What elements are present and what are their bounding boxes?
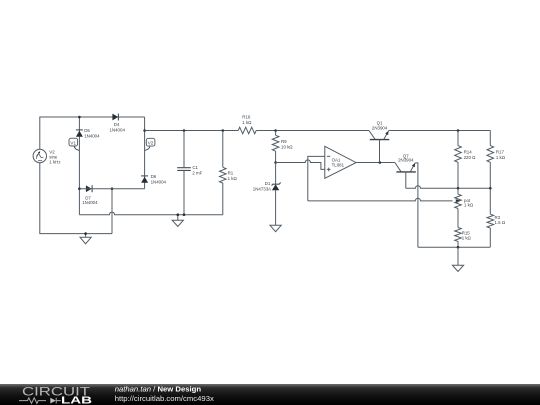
svg-text:1 kΩ: 1 kΩ: [242, 120, 252, 125]
svg-text:1N4004: 1N4004: [82, 200, 98, 205]
wire: op-amp output: [356, 162, 395, 164]
node: output / Q1 base: [379, 161, 382, 164]
node: left column / D7 anode: [78, 187, 81, 190]
svg-text:D5: D5: [84, 128, 90, 133]
node: top rail / left column: [78, 116, 81, 119]
resistor R17 1k: [487, 131, 494, 189]
svg-text:220 Ω: 220 Ω: [464, 155, 477, 160]
node: zener reference node: [274, 161, 277, 164]
diode D6 1N4004: [141, 176, 148, 183]
wire: bridge mid-bottom vertical: [111, 189, 113, 234]
svg-text:1N4004: 1N4004: [110, 127, 126, 132]
svg-text:1 kΩ: 1 kΩ: [464, 202, 474, 207]
svg-text:D6: D6: [151, 174, 157, 179]
wire: source top to bridge top rail: [40, 117, 145, 149]
ground (zener): [270, 225, 281, 231]
pot wiper arrow: [456, 199, 461, 203]
voltage source V2 (sine 1 kHz): [33, 149, 46, 162]
svg-text:R16: R16: [242, 115, 251, 120]
svg-text:1.5 Ω: 1.5 Ω: [495, 220, 506, 225]
svg-text:1N4733A: 1N4733A: [253, 186, 271, 191]
svg-text:10 kΩ: 10 kΩ: [281, 145, 293, 150]
voltmeter bubble V2: [145, 138, 155, 150]
svg-text:R14: R14: [464, 149, 473, 154]
svg-text:D1: D1: [265, 181, 271, 186]
svg-text:R17: R17: [496, 149, 505, 154]
ground (filter bottom): [172, 215, 183, 227]
transistor Q7 2N3904: [395, 163, 416, 189]
footer bar: [0, 384, 540, 405]
zener diode D1 1N4733A: [272, 163, 281, 226]
wire: bridge right column: [144, 117, 146, 189]
svg-text:1 kHz: 1 kHz: [49, 160, 60, 165]
logo doodle diode: [50, 398, 56, 404]
svg-text:R3: R3: [495, 215, 501, 220]
resistor R15 1k: [455, 228, 462, 248]
voltmeter bubble V1: [69, 138, 79, 150]
svg-text:V1: V1: [70, 141, 76, 146]
svg-text:1N4004: 1N4004: [151, 179, 167, 184]
svg-text:1 kΩ: 1 kΩ: [462, 236, 472, 241]
node: divider wire / R14 bottom / pot top: [457, 187, 460, 190]
svg-text:1 kΩ: 1 kΩ: [228, 176, 238, 181]
ground (output divider): [452, 247, 463, 271]
svg-text:1 kΩ: 1 kΩ: [496, 155, 506, 160]
node: rail / C1 top: [183, 129, 186, 132]
svg-text:TL081: TL081: [332, 163, 345, 168]
svg-text:LAB: LAB: [61, 395, 92, 405]
svg-text:V2: V2: [148, 141, 154, 146]
svg-text:R15: R15: [462, 230, 471, 235]
transistor Q1 2N3904: [369, 131, 389, 163]
node: rail / R1 top: [222, 129, 225, 132]
wire: op-amp - input from feedback column: [308, 156, 325, 201]
resistor R3 1.5: [487, 188, 494, 247]
svg-text:nathan.tan / New Design: nathan.tan / New Design: [115, 385, 202, 394]
wire: Q7 emitter to output column: [415, 163, 418, 247]
capacitor C1 2 mF: [177, 131, 191, 215]
diode D4 1N4004: [112, 114, 118, 121]
svg-text:http://circuitlab.com/cmc493x: http://circuitlab.com/cmc493x: [115, 394, 214, 403]
svg-text:2 mF: 2 mF: [192, 170, 202, 175]
node: rail / R9 top: [274, 129, 277, 132]
svg-text:2N3904: 2N3904: [398, 158, 414, 163]
node: bottom rail ground tap: [457, 246, 460, 249]
ground (source bottom): [80, 234, 91, 244]
wire: output bottom rail: [418, 246, 490, 248]
node: C1 bottom on rail: [183, 213, 186, 216]
svg-text:1N4004: 1N4004: [84, 133, 100, 138]
wire: Q1 emitter to right rail: [389, 130, 491, 132]
wire: reference to op-amp + input (hop over feedback drop): [276, 160, 325, 169]
svg-text:OA1: OA1: [332, 157, 341, 162]
node: bottom bridge / vertical junction: [111, 187, 114, 190]
diode D5 1N4004: [76, 130, 83, 137]
resistor R9 10k: [272, 131, 279, 163]
wire: main positive rail: [145, 130, 369, 132]
node: source bottom rail / ground tap: [84, 232, 87, 235]
node: right column / main rail: [143, 129, 146, 132]
potentiometer pot 1k: [455, 188, 462, 227]
svg-text:R9: R9: [281, 139, 287, 144]
resistor R14 220: [455, 131, 462, 189]
svg-text:2N3904: 2N3904: [372, 125, 388, 130]
wire: feedback to pot wiper (hop over output column): [308, 198, 453, 201]
wire: bridge bottom: [79, 188, 144, 190]
wire: bottom rail with hop over x=112: [79, 212, 222, 215]
resistor R1 1k: [220, 131, 227, 215]
diode D7 1N4004: [86, 185, 92, 192]
node: divider wire / R17 bottom: [489, 187, 492, 190]
node: rail / R14 top: [457, 129, 460, 132]
CircuitLab logo schematic doodle: [19, 398, 46, 404]
svg-text:R1: R1: [228, 171, 234, 176]
wire: bridge left column: [78, 117, 80, 215]
wire: Q7 base feed to divider (hop over output column): [406, 186, 491, 189]
resistor R16: [238, 127, 256, 134]
op-amp OA1 TL081: [325, 146, 356, 178]
svg-text:C1: C1: [192, 165, 198, 170]
node: ground tap on bottom rail: [177, 213, 180, 216]
wire: source bottom: [40, 163, 112, 234]
